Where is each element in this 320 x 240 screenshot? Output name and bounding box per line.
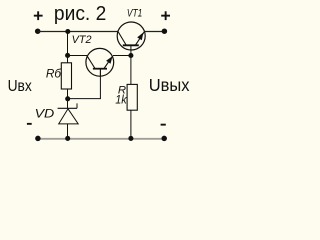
label VD (35, 107, 55, 121)
svg-text:1k: 1k (115, 93, 127, 107)
terminal + output (162, 28, 168, 34)
svg-text:Uвых: Uвых (149, 75, 190, 95)
svg-text:VT1: VT1 (127, 7, 142, 19)
label Uвх (8, 78, 32, 95)
label + (input plus) (34, 11, 43, 20)
zener diode VD (58, 99, 79, 139)
label Uвых (149, 75, 190, 95)
label R (118, 85, 126, 97)
svg-text:Rб: Rб (46, 67, 62, 81)
label VT2 (72, 34, 92, 46)
transistor VT1 (117, 22, 145, 56)
svg-text:VT2: VT2 (72, 34, 92, 46)
svg-text:VD: VD (35, 107, 55, 121)
transistor VT2 (86, 48, 114, 76)
terminal + input (35, 28, 41, 34)
junction top rail / Rб branch (65, 29, 70, 34)
terminal − output (161, 136, 167, 142)
junction R / bottom rail (128, 136, 133, 141)
svg-text:Uвх: Uвх (8, 78, 32, 95)
terminal − input (35, 136, 41, 142)
wire to VT2 base (68, 69, 101, 99)
label − (input minus) (27, 123, 32, 125)
wire VT1 base node down to R (130, 56, 132, 85)
wire VT2 emitter to VT1 base node (113, 55, 131, 57)
label + (output plus) (161, 11, 170, 20)
label рис. 2 (54, 3, 106, 25)
wire top rail left (38, 31, 118, 33)
wire Rб branch down (67, 32, 69, 56)
junction Rб top / VT2 collector (65, 53, 70, 58)
wire to VT2 collector (68, 55, 87, 57)
wire bottom rail (38, 138, 164, 140)
resistor R (127, 84, 137, 138)
label VT1 (127, 7, 142, 19)
junction VD / bottom rail (65, 136, 70, 141)
resistor Rб (61, 56, 71, 99)
junction Rб bottom / VD / VT2 base (65, 96, 70, 101)
label 1k (115, 93, 127, 107)
label − (output minus) (161, 124, 166, 126)
svg-text:рис. 2: рис. 2 (54, 3, 106, 25)
label Rб (46, 67, 62, 81)
wire VT1 emitter to output terminal (144, 31, 164, 33)
junction VT1 base / VT2 emitter / R top (128, 53, 133, 58)
